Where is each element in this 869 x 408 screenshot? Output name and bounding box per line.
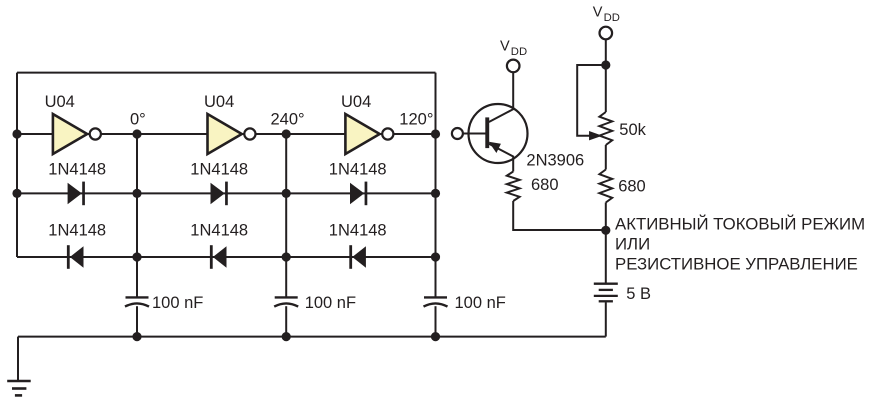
svg-text:1N4148: 1N4148 xyxy=(48,222,106,240)
capacitor C1 100 nF xyxy=(125,297,149,306)
Q1 collector lead to Vdd xyxy=(489,72,513,122)
svg-text:U04: U04 xyxy=(341,93,371,111)
wire rheostat loop xyxy=(577,65,606,136)
svg-text:DD: DD xyxy=(511,46,527,58)
svg-text:100 nF: 100 nF xyxy=(152,294,203,312)
wire node to battery xyxy=(605,230,607,282)
inverter U04 #1 xyxy=(53,114,101,154)
svg-text:V: V xyxy=(500,39,510,55)
svg-text:DD: DD xyxy=(604,12,620,24)
wire column B upper xyxy=(136,134,138,297)
svg-text:РЕЗИСТИВНОЕ УПРАВЛЕНИЕ: РЕЗИСТИВНОЕ УПРАВЛЕНИЕ xyxy=(615,255,858,274)
svg-text:1N4148: 1N4148 xyxy=(329,160,387,178)
Q1 emitter arrow xyxy=(490,143,500,152)
resistor R1 680 (emitter) xyxy=(507,172,520,202)
diode D1 1N4148 xyxy=(68,182,85,206)
wire Vdd to pot xyxy=(605,39,607,112)
resistor R2 680 xyxy=(599,170,612,203)
wire column C lower xyxy=(285,306,287,336)
svg-text:5 В: 5 В xyxy=(626,285,651,303)
wire pot to R2 xyxy=(605,145,607,170)
svg-text:50k: 50k xyxy=(619,121,646,139)
wire left column xyxy=(16,73,18,257)
transistor Q1 2N3906 xyxy=(469,72,528,171)
diode D2 1N4148 xyxy=(211,182,228,206)
wire battery to bottom rail xyxy=(605,302,607,336)
svg-text:V: V xyxy=(593,5,603,21)
node control xyxy=(601,226,610,235)
svg-text:100 nF: 100 nF xyxy=(455,294,506,312)
svg-text:АКТИВНЫЙ ТОКОВЫЙ РЕЖИМ: АКТИВНЫЙ ТОКОВЫЙ РЕЖИМ xyxy=(615,215,865,234)
svg-text:ИЛИ: ИЛИ xyxy=(615,235,650,254)
svg-text:2N3906: 2N3906 xyxy=(526,152,584,170)
svg-text:100 nF: 100 nF xyxy=(305,294,356,312)
Q1 emitter lead xyxy=(489,144,513,172)
svg-text:680: 680 xyxy=(531,176,559,194)
inverter U04 #2 xyxy=(208,114,256,154)
wire bottom rail xyxy=(18,336,606,338)
wire main signal row xyxy=(17,133,436,135)
wire diode row 2 xyxy=(17,256,436,258)
svg-text:U04: U04 xyxy=(45,93,75,111)
wire ground stem xyxy=(17,337,19,381)
label control text xyxy=(615,215,865,274)
svg-text:1N4148: 1N4148 xyxy=(48,160,106,178)
svg-text:240°: 240° xyxy=(271,110,305,128)
input port circle to Q1 xyxy=(452,128,463,139)
wire column B lower xyxy=(136,306,138,336)
wire top feedback xyxy=(17,72,436,74)
svg-text:0°: 0° xyxy=(130,110,146,128)
svg-text:120°: 120° xyxy=(399,110,433,128)
wire column C upper xyxy=(285,134,287,297)
diode D4 1N4148 xyxy=(67,245,84,269)
inverter U04 #3 xyxy=(345,114,393,154)
node dots diode row 1 xyxy=(12,189,440,198)
node dots diode row 2 xyxy=(132,252,440,261)
Vdd terminal pot xyxy=(600,27,613,40)
svg-text:1N4148: 1N4148 xyxy=(190,160,248,178)
capacitor C2 100 nF xyxy=(274,297,298,306)
svg-text:1N4148: 1N4148 xyxy=(329,222,387,240)
Q1 base bar xyxy=(485,117,489,148)
ground xyxy=(7,381,31,395)
wiper arrow xyxy=(590,132,600,139)
node dots bottom rail xyxy=(132,332,440,341)
svg-text:680: 680 xyxy=(618,177,646,195)
wire base xyxy=(463,133,486,135)
svg-text:U04: U04 xyxy=(204,93,234,111)
wire right column xyxy=(435,73,437,298)
capacitor C3 100 nF xyxy=(424,297,448,306)
diode D3 1N4148 xyxy=(350,182,367,206)
wire right column below cap3 xyxy=(435,306,437,336)
wire emitter resistor to node xyxy=(513,201,606,230)
wire R2 to node xyxy=(605,203,607,231)
potentiometer 50k xyxy=(599,112,612,145)
svg-text:1N4148: 1N4148 xyxy=(190,222,248,240)
node top of pot xyxy=(601,60,610,69)
node dots main row xyxy=(12,129,440,138)
battery B1 5V xyxy=(594,284,618,302)
wire diode row 1 xyxy=(17,192,436,194)
Vdd terminal Q1 xyxy=(507,60,520,73)
diode D6 1N4148 xyxy=(349,245,366,269)
diode D5 1N4148 xyxy=(210,245,227,269)
